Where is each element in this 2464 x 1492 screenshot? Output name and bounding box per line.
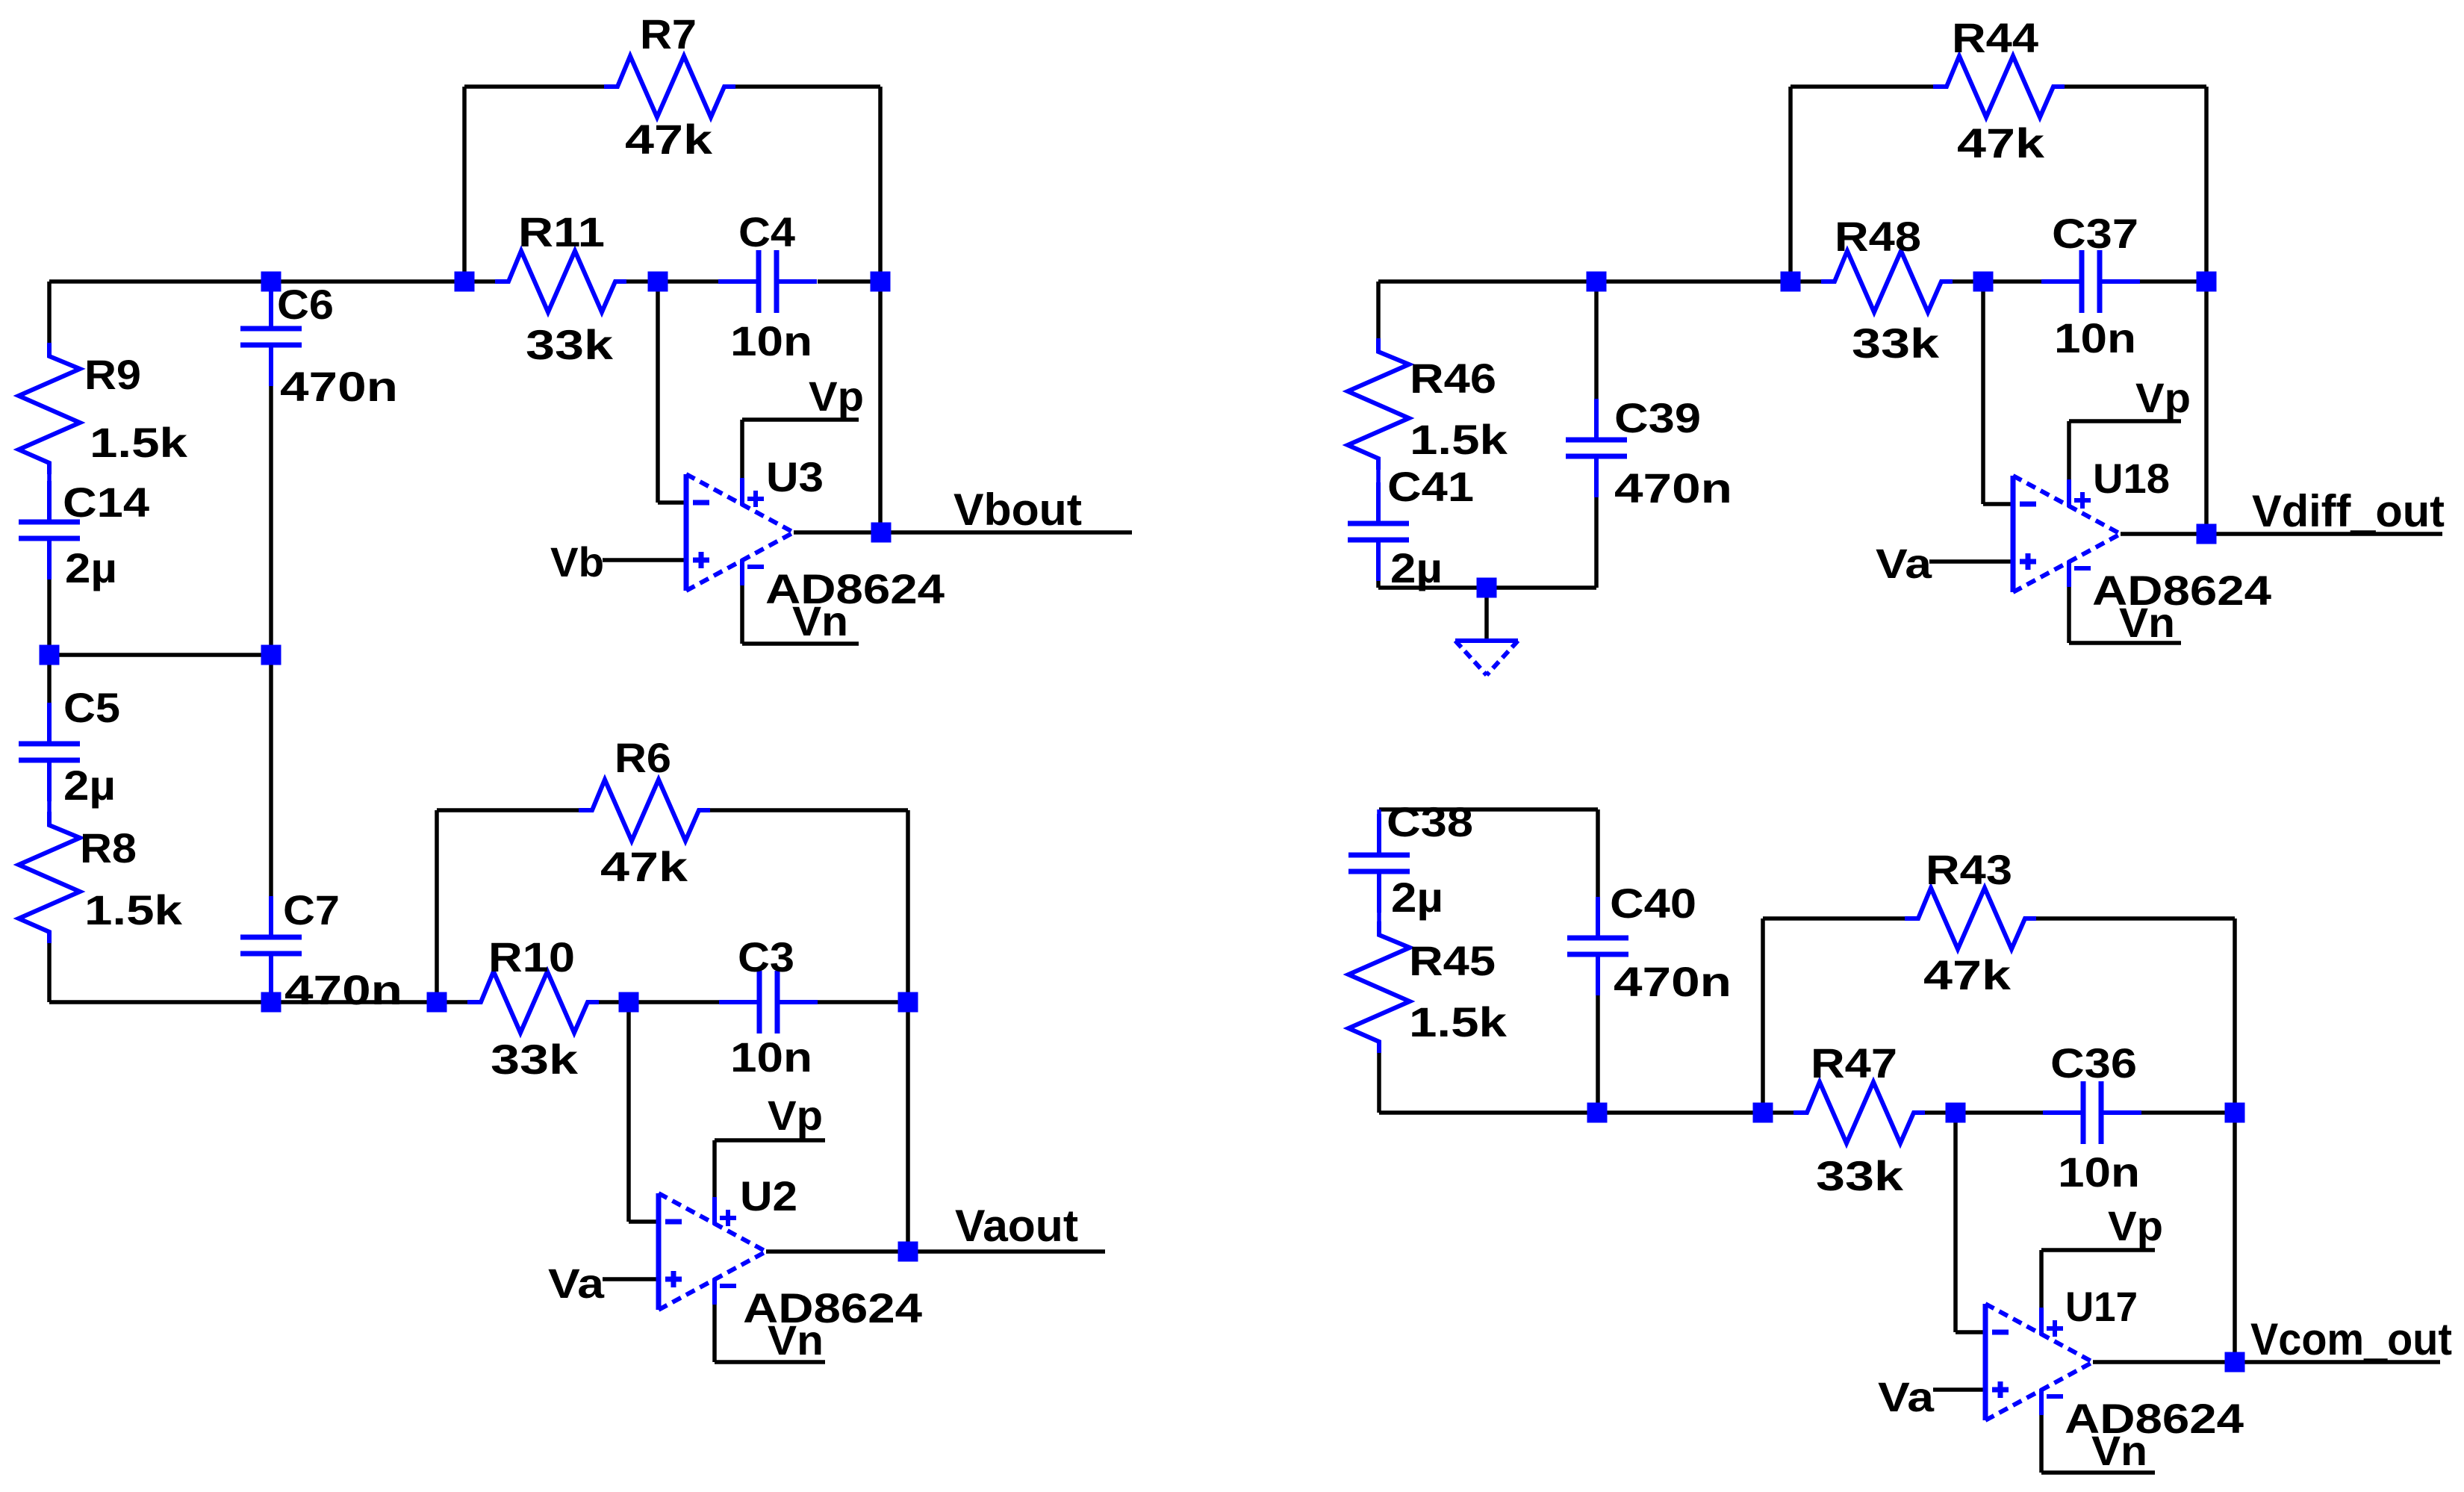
node rail4-C40: [1587, 1103, 1608, 1123]
node U17 output node: [2225, 1352, 2245, 1373]
op-amp U17: [1985, 1304, 2093, 1420]
svg-text:R7: R7: [640, 10, 697, 57]
node left col mid: [40, 645, 60, 665]
svg-text:AD8624: AD8624: [2092, 567, 2271, 614]
svg-text:10n: 10n: [2054, 314, 2136, 361]
wire C38 top lead: [1377, 809, 1381, 815]
wire rail3 b: [1596, 279, 1791, 284]
capacitor C14: [19, 481, 80, 579]
svg-text:R6: R6: [615, 734, 671, 781]
wire R7 loop right vertical: [878, 87, 883, 282]
wire U18 Vn vertical: [2067, 587, 2071, 643]
svg-text:470n: 470n: [1614, 464, 1732, 512]
wire bottom link 3: [1378, 585, 1596, 590]
wire C39 bottom lead: [1594, 497, 1599, 588]
svg-text:U18: U18: [2093, 455, 2170, 502]
svg-text:47k: 47k: [1957, 119, 2045, 167]
wire U18 Vp vertical: [2067, 421, 2071, 479]
wire R8 bottom lead: [47, 943, 52, 1002]
wire U17 Vp vertical: [2039, 1250, 2044, 1308]
wire Va input U18: [1929, 559, 2013, 564]
svg-text:10n: 10n: [2058, 1148, 2140, 1196]
svg-text:1.5k: 1.5k: [1409, 998, 1508, 1045]
capacitor C3: [719, 971, 818, 1033]
svg-text:U2: U2: [740, 1172, 797, 1219]
wire R9 top lead: [47, 282, 52, 343]
svg-text:AD8624: AD8624: [743, 1284, 922, 1331]
wire rail2 b: [271, 1000, 437, 1004]
svg-text:R44: R44: [1952, 14, 2038, 61]
svg-text:33k: 33k: [526, 321, 614, 368]
wire C41 bottom lead: [1376, 581, 1381, 588]
wire R43 loop top right: [2036, 916, 2235, 921]
svg-text:R9: R9: [84, 351, 141, 398]
wire U3 Vn horizontal: [742, 641, 859, 646]
wire rail4 f: [2141, 1110, 2235, 1115]
wire R7 loop top right: [735, 84, 880, 89]
wire U17 Vn horizontal: [2041, 1470, 2155, 1475]
wire R46 top lead: [1376, 282, 1381, 340]
svg-text:2µ: 2µ: [65, 544, 117, 591]
svg-text:Vb: Vb: [550, 538, 604, 585]
wire C40 top lead: [1596, 809, 1600, 897]
svg-text:1.5k: 1.5k: [90, 419, 188, 466]
capacitor C5: [19, 703, 80, 801]
svg-text:C5: C5: [63, 684, 120, 731]
wire U18 output: [2121, 532, 2206, 536]
svg-text:C3: C3: [738, 933, 794, 980]
svg-text:Vaout: Vaout: [955, 1201, 1078, 1251]
svg-text:1.5k: 1.5k: [84, 886, 183, 933]
svg-text:47k: 47k: [1923, 951, 2012, 998]
wire R43 loop right vertical: [2233, 918, 2237, 1113]
svg-text:Vp: Vp: [768, 1092, 823, 1139]
wire U17 output: [2093, 1360, 2235, 1364]
svg-text:10n: 10n: [730, 317, 812, 364]
wire R44 loop top right: [2065, 84, 2206, 89]
svg-text:Vcom_out: Vcom_out: [2250, 1314, 2452, 1364]
svg-text:R10: R10: [488, 933, 575, 980]
wire rail2 c: [437, 1000, 467, 1004]
wire rail1 f: [818, 279, 880, 284]
wire R7 loop top left: [464, 84, 604, 89]
node U18 output node: [2197, 524, 2217, 544]
wire inverting node vertical U17: [1953, 1113, 1958, 1332]
node U3 output node: [871, 523, 892, 543]
wire U2 output: [766, 1249, 908, 1254]
svg-text:Vdiff_out: Vdiff_out: [2252, 486, 2445, 536]
wire R6 loop right vertical: [906, 810, 910, 1002]
svg-text:R43: R43: [1926, 846, 2012, 893]
wire rail2 a: [49, 1000, 271, 1004]
node rail1-feedback: [871, 272, 891, 292]
svg-text:Va: Va: [1878, 1373, 1935, 1420]
node rail4-R43loop: [1753, 1103, 1773, 1123]
resistor R44: [1933, 56, 2065, 117]
resistor R46: [1348, 338, 1409, 470]
resistor R11: [495, 251, 626, 312]
wire U2 Vn horizontal: [715, 1360, 825, 1364]
svg-text:C40: C40: [1610, 880, 1696, 927]
capacitor C6: [240, 287, 302, 386]
node rail3-C39: [1587, 272, 1607, 292]
wire rail1 c: [464, 279, 495, 284]
wire inverting input U2: [629, 1219, 659, 1224]
svg-text:U17: U17: [2065, 1283, 2138, 1330]
wire rail4 b: [1597, 1110, 1763, 1115]
svg-text:R46: R46: [1410, 355, 1496, 402]
svg-text:47k: 47k: [625, 116, 713, 163]
wire feedback vertical to output U18: [2204, 282, 2209, 534]
wire R45 bottom lead: [1377, 1053, 1381, 1113]
svg-text:33k: 33k: [1852, 320, 1940, 367]
wire rail1 d: [626, 279, 658, 284]
wire U17 Vn vertical: [2039, 1415, 2044, 1473]
wire C5 top lead: [47, 655, 52, 704]
svg-text:R48: R48: [1835, 213, 1921, 260]
wire feedback vertical to output U17: [2233, 1113, 2237, 1362]
wire rail1 e: [658, 279, 718, 284]
wire Va input U2: [603, 1277, 659, 1281]
op-amp U18: [2013, 476, 2121, 592]
wire Vb input: [603, 558, 686, 562]
wire R44 loop top left: [1791, 84, 1933, 89]
wire feedback vertical to output U2: [906, 1002, 910, 1252]
resistor R10: [467, 972, 599, 1033]
wire U3 Vn vertical: [740, 585, 744, 644]
wire R44 loop left vertical: [1788, 87, 1793, 282]
svg-text:R11: R11: [518, 208, 605, 255]
node ground node: [1477, 578, 1497, 598]
wire C5-R8 link: [47, 801, 52, 813]
resistor R45: [1348, 921, 1410, 1053]
wire U3 Vp vertical: [740, 420, 744, 478]
wire rail1 b: [271, 279, 464, 284]
op-amp U2: [659, 1193, 766, 1310]
wire R43 loop left vertical: [1761, 918, 1765, 1113]
svg-text:470n: 470n: [1614, 958, 1732, 1005]
wire R6 loop top left: [437, 808, 579, 812]
resistor R7: [604, 56, 735, 117]
node inverting node U3: [648, 272, 668, 292]
svg-text:2µ: 2µ: [1390, 544, 1443, 591]
node rail4-C36: [2225, 1103, 2245, 1123]
svg-text:10n: 10n: [730, 1033, 812, 1081]
wire rail3 d: [1953, 279, 1983, 284]
node rail2-feedback: [898, 992, 918, 1013]
wire rail2 d: [599, 1000, 629, 1004]
wire C7 top lead: [269, 655, 273, 896]
wire rail1 a: [49, 279, 271, 284]
wire rail2 f: [818, 1000, 908, 1004]
node C6-C7 col mid: [261, 645, 281, 665]
capacitor C7: [240, 896, 302, 995]
node inverting node U2: [619, 992, 639, 1013]
wire U3 Vp horizontal: [742, 417, 859, 422]
wire U18 Vp horizontal: [2069, 419, 2181, 423]
wire feedback vertical to output: [878, 282, 883, 532]
wire U2 Vp horizontal: [715, 1138, 825, 1143]
wire R44 loop right vertical: [2204, 87, 2209, 282]
svg-text:C37: C37: [2052, 210, 2138, 257]
wire Vaout net wire: [908, 1249, 1105, 1254]
svg-text:33k: 33k: [491, 1036, 579, 1083]
wire inverting input U18: [1983, 502, 2013, 506]
resistor R48: [1821, 251, 1953, 312]
resistor R47: [1793, 1082, 1925, 1143]
wire U2 Vn vertical: [712, 1305, 717, 1362]
capacitor C4: [718, 250, 817, 313]
wire R46-C41 link: [1376, 470, 1381, 484]
wire R6 loop left vertical: [435, 810, 439, 1002]
wire U17 Vp horizontal: [2041, 1248, 2155, 1252]
node U2 output node: [898, 1242, 918, 1262]
svg-text:C4: C4: [738, 208, 795, 255]
wire Vdiff_out net wire: [2206, 532, 2442, 536]
node rail1-C6: [261, 272, 281, 292]
svg-text:R8: R8: [80, 824, 137, 871]
node rail3-feedback: [2197, 272, 2217, 292]
svg-text:C7: C7: [283, 886, 340, 933]
resistor R9: [19, 343, 80, 474]
wire C39 top lead: [1594, 282, 1599, 400]
capacitor C41: [1348, 482, 1409, 581]
svg-text:Vp: Vp: [2135, 374, 2191, 421]
wire rail2 e: [629, 1000, 719, 1004]
capacitor C39: [1566, 399, 1627, 497]
capacitor C36: [2043, 1081, 2141, 1144]
wire rail4 c: [1763, 1110, 1793, 1115]
svg-text:Vbout: Vbout: [953, 485, 1082, 535]
wire Va input U17: [1933, 1387, 1985, 1392]
wire rail4 d: [1925, 1110, 1956, 1115]
wire R9-C14 link: [47, 464, 52, 484]
svg-text:470n: 470n: [280, 363, 398, 410]
node rail2-C7: [261, 992, 281, 1013]
wire inverting node vertical U18: [1981, 282, 1985, 504]
svg-text:C39: C39: [1614, 394, 1701, 441]
svg-text:33k: 33k: [1816, 1152, 1904, 1199]
wire U18 Vn horizontal: [2069, 641, 2181, 645]
wire R43 loop top left: [1763, 916, 1905, 921]
wire inverting input U17: [1956, 1330, 1985, 1334]
svg-text:1.5k: 1.5k: [1410, 416, 1508, 463]
svg-text:Va: Va: [548, 1260, 605, 1307]
wire Vbout net wire: [881, 530, 1132, 535]
wire rail3 c: [1791, 279, 1821, 284]
capacitor C38: [1348, 814, 1410, 913]
wire mid link: [49, 653, 271, 657]
svg-text:C38: C38: [1387, 798, 1473, 845]
op-amp U3: [686, 474, 794, 591]
capacitor C40: [1567, 897, 1628, 995]
wire rail3 e: [1983, 279, 2041, 284]
svg-text:47k: 47k: [600, 843, 688, 890]
wire C38-R45 link: [1377, 913, 1381, 921]
wire R6 loop top right: [710, 808, 908, 812]
wire top link 4: [1379, 807, 1598, 812]
resistor R6: [579, 780, 710, 841]
svg-text:C6: C6: [277, 281, 334, 328]
wire U2 Vp vertical: [712, 1140, 717, 1197]
svg-text:470n: 470n: [284, 966, 402, 1013]
svg-text:AD8624: AD8624: [2065, 1395, 2244, 1442]
wire rail4 e: [1956, 1110, 2043, 1115]
wire inverting node vertical U2: [626, 1002, 631, 1222]
wire rail3 f: [2140, 279, 2206, 284]
wire C40 bottom lead: [1596, 995, 1600, 1113]
svg-text:Va: Va: [1876, 540, 1932, 587]
wire rail3 a: [1378, 279, 1596, 284]
svg-text:U3: U3: [766, 453, 824, 500]
resistor R43: [1905, 888, 2036, 949]
node rail1-R7loop: [455, 272, 475, 292]
resistor R8: [19, 812, 80, 943]
svg-text:2µ: 2µ: [1391, 874, 1443, 921]
svg-text:Vp: Vp: [809, 373, 864, 420]
wire U3 output: [794, 530, 881, 535]
svg-text:R45: R45: [1409, 937, 1496, 984]
node inverting node U18: [1973, 272, 1994, 292]
wire Vcom_out net wire: [2235, 1360, 2440, 1364]
ground: [1455, 588, 1518, 675]
svg-text:C14: C14: [63, 479, 149, 526]
wire C14 bottom lead: [47, 579, 52, 655]
svg-text:C36: C36: [2050, 1039, 2137, 1087]
node rail2-R6loop: [427, 992, 447, 1013]
svg-text:2µ: 2µ: [63, 762, 116, 809]
node inverting node U17: [1946, 1103, 1966, 1123]
wire inverting input U3: [658, 500, 686, 505]
wire inverting node vertical U3: [656, 282, 660, 503]
svg-text:C41: C41: [1387, 463, 1474, 510]
svg-text:AD8624: AD8624: [765, 565, 945, 612]
svg-text:Vp: Vp: [2108, 1202, 2163, 1249]
wire rail4 a: [1379, 1110, 1597, 1115]
capacitor C37: [2041, 250, 2140, 313]
svg-text:R47: R47: [1811, 1039, 1897, 1087]
wire R7 loop left vertical: [462, 87, 467, 282]
node rail3-R44loop: [1781, 272, 1801, 292]
wire C6 bottom lead to node: [269, 386, 273, 655]
